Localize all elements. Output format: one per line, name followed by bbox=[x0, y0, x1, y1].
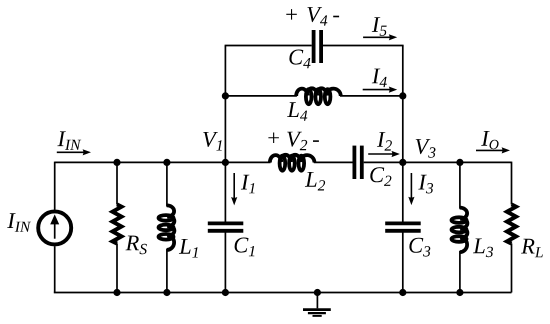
wire: top C4 branch left bbox=[225, 45, 312, 47]
label C3 bbox=[409, 238, 430, 257]
label I2 bbox=[377, 132, 392, 151]
node V3 bbox=[399, 159, 406, 166]
inductor L4 bbox=[296, 88, 341, 104]
label RS bbox=[126, 236, 147, 255]
arrow I1 (down) bbox=[231, 173, 237, 205]
arrow IIN (top-left) bbox=[57, 149, 91, 155]
label L2 bbox=[305, 172, 325, 191]
wire: RS branch lower bbox=[116, 243, 118, 292]
label L4 bbox=[287, 102, 307, 121]
capacitor C3 bbox=[385, 223, 421, 230]
node L1 bottom bbox=[163, 289, 170, 296]
wire: C1 branch upper bbox=[224, 162, 226, 222]
node ground bbox=[314, 289, 321, 296]
wire: bottom rail bbox=[54, 292, 512, 294]
label I5 bbox=[372, 17, 387, 36]
label IO bbox=[481, 131, 498, 149]
wire: right edge below RL bbox=[511, 243, 513, 292]
label IIN source bbox=[7, 213, 31, 232]
node L3 bottom bbox=[456, 289, 463, 296]
wire: C3 branch lower bbox=[402, 232, 404, 293]
label I1 bbox=[241, 175, 255, 194]
wire: V3 to right edge bbox=[403, 161, 512, 163]
wire: RS branch upper bbox=[116, 162, 118, 204]
wire: input top horizontal bbox=[55, 161, 226, 163]
arrow IO (right) bbox=[476, 147, 510, 153]
label V2 bbox=[287, 132, 307, 151]
wire: right vertical V3 up bbox=[402, 46, 404, 163]
wire: L1 branch upper bbox=[166, 162, 168, 206]
label I3 bbox=[418, 175, 433, 194]
wire: L1 branch lower bbox=[166, 249, 168, 293]
node RS bottom bbox=[113, 289, 120, 296]
wire: ground stub bbox=[316, 293, 318, 309]
wire: left edge below source bbox=[54, 246, 56, 292]
arrow I3 (down) bbox=[408, 173, 414, 205]
capacitor C2 bbox=[354, 146, 361, 179]
ground bbox=[303, 310, 331, 316]
label V1 bbox=[203, 132, 222, 151]
inductor L3 bbox=[452, 208, 468, 253]
arrow I2 (right) bbox=[368, 151, 400, 157]
wire: right edge above RL bbox=[511, 162, 513, 205]
wire: L3 branch upper bbox=[459, 162, 461, 208]
label L3 bbox=[473, 239, 493, 258]
capacitor C1 bbox=[208, 223, 244, 230]
wire: C2 to V3 bbox=[364, 161, 403, 163]
arrow I5 (right) bbox=[363, 34, 397, 40]
label plus V2 bbox=[268, 133, 279, 144]
label plus V4 bbox=[286, 9, 297, 20]
label V4 bbox=[307, 7, 327, 26]
wire: L3 branch lower bbox=[459, 251, 461, 293]
node RS top bbox=[113, 159, 120, 166]
inductor L1 bbox=[159, 205, 175, 250]
label L1 bbox=[179, 239, 198, 258]
arrow I4 (right) bbox=[363, 87, 398, 93]
wire: top C4 branch right bbox=[323, 45, 404, 47]
node L1 top bbox=[163, 159, 170, 166]
resistor RL bbox=[507, 204, 516, 243]
current source IIN bbox=[38, 211, 71, 244]
wire: C1 branch lower bbox=[224, 232, 226, 293]
node C1 bottom bbox=[222, 289, 229, 296]
node C3 bottom bbox=[399, 289, 406, 296]
capacitor C4 bbox=[314, 30, 322, 63]
node L4 right bbox=[399, 92, 406, 99]
wire: middle V1 to L2 bbox=[225, 161, 270, 163]
wire: left edge above source bbox=[54, 162, 56, 210]
label IIN top-left bbox=[57, 131, 81, 150]
node L3 top bbox=[456, 159, 463, 166]
wire: mid vertical V1 up bbox=[224, 46, 226, 163]
wire: C3 branch upper bbox=[402, 162, 404, 222]
wire: L4 branch left bbox=[225, 95, 297, 97]
node L4 left bbox=[222, 92, 229, 99]
label minus V4 bbox=[333, 16, 339, 18]
label C4 bbox=[289, 50, 310, 69]
label minus V2 bbox=[313, 140, 319, 142]
resistor RS bbox=[113, 204, 122, 243]
node V1 bbox=[222, 159, 229, 166]
label C2 bbox=[370, 167, 391, 186]
inductor L2 bbox=[270, 155, 315, 171]
wire: L2 to C2 bbox=[314, 161, 353, 163]
label RL bbox=[521, 239, 543, 257]
label C1 bbox=[235, 238, 255, 257]
label I4 bbox=[372, 69, 387, 88]
label V3 bbox=[416, 139, 436, 158]
wire: L4 branch right bbox=[340, 95, 403, 97]
